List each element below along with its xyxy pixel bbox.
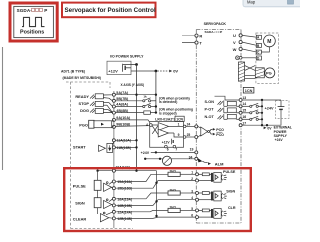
- wire R2 to pin1: [180, 173, 195, 175]
- svg-text:24: 24: [187, 122, 191, 126]
- pin 12B(14B): [112, 217, 115, 220]
- svg-text:SIGN: SIGN: [75, 201, 85, 206]
- svg-text:U: U: [233, 33, 236, 38]
- wire 0V vertical rail: [155, 71, 157, 113]
- svg-text:W: W: [233, 47, 237, 52]
- switch S5 (P-OT): [242, 110, 262, 114]
- svg-text:9A(10A): 9A(10A): [116, 116, 131, 120]
- line driver U10 (PCO): [198, 126, 213, 137]
- pin 16A(19A): [112, 197, 115, 200]
- pin 7: [173, 145, 176, 148]
- wire row 9B to LRX: [115, 125, 149, 128]
- wire start 11A: [115, 139, 137, 141]
- highlight box (red): [64, 168, 251, 231]
- svg-text:V: V: [233, 40, 236, 45]
- svg-text:14: 14: [242, 102, 246, 106]
- encoder cable hatched block: [238, 62, 244, 82]
- switch S2 (proximity): [143, 104, 156, 108]
- wire +5V row: [98, 170, 157, 172]
- svg-text:M: M: [267, 39, 271, 45]
- battery B1: [123, 64, 131, 72]
- wire T input: [182, 42, 195, 44]
- pin 11B(13B): [112, 146, 115, 149]
- svg-text:Servopack for Position Control: Servopack for Position Control: [65, 7, 156, 14]
- svg-text:(MADE BY MITSUBISHI): (MADE BY MITSUBISHI): [63, 76, 101, 80]
- node P-OT/+24V rail: [261, 112, 263, 114]
- svg-text:1k: 1k: [143, 95, 147, 99]
- pin 4B(8B): [112, 111, 115, 114]
- node CLR-/mid rail: [155, 215, 157, 217]
- svg-text:P-OT: P-OT: [205, 107, 215, 111]
- wire U to A: [242, 35, 256, 37]
- svg-text:1: 1: [191, 171, 193, 175]
- node ALM return b: [159, 158, 161, 160]
- svg-text:4: 4: [146, 123, 148, 127]
- mid rail: [156, 171, 158, 216]
- wire row 4B: [115, 112, 143, 114]
- AD71 connector column line: [113, 91, 115, 228]
- 1CN connector label box: [243, 87, 254, 93]
- line driver U11 (PULSE): [104, 182, 113, 192]
- svg-text:17: 17: [242, 121, 246, 125]
- 0V arrow label: [264, 126, 267, 129]
- svg-text:+12V: +12V: [108, 68, 118, 73]
- svg-text:19: 19: [190, 147, 194, 151]
- pin 11A(13A): [112, 139, 115, 142]
- opto-isolator U15 (SIGN input): [199, 191, 227, 201]
- wire LRX out to 1CN24: [186, 125, 195, 127]
- wire V to B: [242, 42, 256, 45]
- svg-text:7: 7: [175, 147, 177, 151]
- wire 0V return to battery: [242, 109, 281, 125]
- LRX 1CN connector label box: [175, 116, 184, 121]
- node 0V return rail: [261, 124, 263, 126]
- wire PG cable pair: [245, 66, 256, 79]
- svg-text:5: 5: [191, 207, 193, 211]
- svg-text:15: 15: [242, 109, 246, 113]
- wire motor to connector: [261, 47, 269, 52]
- opto-isolator U14 (PULSE input): [199, 172, 227, 182]
- svg-text:LRX-01/A2*2: LRX-01/A2*2: [155, 118, 175, 122]
- figure left crop line: [2, 47, 4, 170]
- wire CLR+: [116, 210, 168, 211]
- svg-text:Map: Map: [247, 0, 256, 5]
- svg-text:SERVOPACK: SERVOPACK: [204, 22, 227, 26]
- wire R input: [182, 35, 195, 37]
- wire CLR-: [116, 217, 195, 218]
- svg-text:13: 13: [242, 96, 246, 100]
- svg-text:Positions: Positions: [20, 30, 44, 36]
- svg-text:DOG: DOG: [80, 108, 89, 113]
- title box: Servopack for Position Control: [62, 3, 156, 18]
- node B (0V rail tap): [155, 70, 158, 73]
- ALM label: [208, 162, 211, 165]
- svg-text:R: R: [199, 33, 202, 38]
- line driver U5 (START): [99, 141, 114, 152]
- LRX unit box U6: [150, 122, 184, 148]
- wire LRX out to 1CN25: [186, 136, 195, 138]
- svg-text:AD71 (B TYPE): AD71 (B TYPE): [61, 70, 85, 74]
- wire ALM +24V feed: [151, 151, 195, 153]
- svg-text:STOP: STOP: [78, 101, 89, 106]
- motor connector pin C: [256, 50, 261, 54]
- node SIGN-/mid rail: [155, 200, 157, 202]
- LRX output pin 9: [183, 136, 186, 139]
- pin 12A(14A): [112, 210, 115, 213]
- svg-text:6: 6: [191, 214, 193, 218]
- svg-text:12B(14B): 12B(14B): [117, 217, 132, 221]
- svg-text:12A(14A): 12A(14A): [117, 210, 132, 214]
- wire SIGN-: [116, 200, 195, 206]
- svg-text:1CN: 1CN: [245, 89, 253, 93]
- svg-text:25: 25: [187, 133, 191, 137]
- opto-isolator U16 (CLR input): [199, 209, 227, 219]
- wire SIGN+: [116, 193, 168, 199]
- svg-text:PCO: PCO: [216, 128, 224, 132]
- wire PULS-: [116, 181, 195, 189]
- wire row 9A to LRX: [115, 120, 150, 123]
- opto-isolator U7 (S-ON): [218, 100, 240, 106]
- svg-text:+24V: +24V: [275, 138, 284, 142]
- svg-text:9: 9: [178, 133, 180, 137]
- svg-text:is detected): is detected): [159, 100, 177, 104]
- node row5A/0V rail: [155, 94, 157, 96]
- opto-isolator U8 (P-OT): [218, 107, 240, 112]
- node row5A/+12V rail: [135, 94, 137, 96]
- pin 5A(7A): [112, 93, 115, 96]
- 0V arrow marker: [169, 70, 172, 73]
- motor connector pin B: [256, 43, 261, 47]
- svg-text:+12V: +12V: [162, 140, 171, 144]
- pin 4A(8A): [112, 105, 115, 108]
- node S-ON/+24V rail: [261, 105, 263, 107]
- pin 9A(10A): [112, 118, 115, 121]
- pin 5B(7B): [112, 99, 115, 102]
- svg-text:CLEAR: CLEAR: [73, 216, 87, 221]
- wire dashed stub to 0V: [157, 70, 168, 72]
- svg-text:16: 16: [242, 115, 246, 119]
- pin 15A(16A): [112, 180, 115, 183]
- wire W to C: [242, 49, 256, 52]
- svg-text:N-OT: N-OT: [205, 115, 215, 119]
- pull-up rail left: [97, 171, 99, 214]
- battery B2 (+12V in LRX): [162, 139, 173, 145]
- svg-text:0V: 0V: [173, 69, 178, 74]
- node row4B/0V rail end: [155, 111, 157, 113]
- switch S6 (N-OT): [242, 116, 262, 120]
- terminal ground: [236, 56, 240, 60]
- svg-text:SIGN: SIGN: [226, 190, 235, 194]
- wire row 4A: [115, 106, 143, 108]
- svg-text:0V: 0V: [267, 126, 272, 130]
- motor connector pin D: [256, 56, 261, 60]
- svg-text:SGDA-□□□P: SGDA-□□□P: [205, 30, 223, 34]
- PGO buffer box: [89, 120, 94, 128]
- wire start 11B: [115, 146, 137, 148]
- svg-text:1CN: 1CN: [176, 117, 183, 121]
- svg-text:PG: PG: [266, 71, 272, 76]
- svg-text:4: 4: [191, 196, 193, 200]
- relay RY (alarm): [162, 156, 171, 165]
- callout box: SGDA Positions: [10, 3, 57, 41]
- motor M: [264, 35, 276, 47]
- svg-text:5B(7B): 5B(7B): [116, 97, 129, 101]
- svg-text:3: 3: [191, 189, 193, 193]
- wire R5 to pin5: [180, 209, 195, 211]
- pin 24: [195, 125, 198, 128]
- node PULS-/mid rail: [155, 182, 157, 184]
- wire row 5A: [115, 94, 156, 96]
- line driver U12 (SIGN): [104, 199, 113, 209]
- switch S4 (S-ON): [242, 103, 262, 107]
- pin 6: [165, 145, 167, 147]
- line receiver A (LRX): [152, 123, 183, 137]
- terminal T: [195, 41, 198, 44]
- wire PGO pair: [112, 120, 114, 122]
- svg-text:P: P: [44, 8, 47, 13]
- svg-text:CLR: CLR: [228, 206, 236, 210]
- svg-text:6: 6: [167, 147, 169, 151]
- PGO cable box: [94, 121, 112, 128]
- svg-text:READY: READY: [75, 94, 89, 99]
- node row4A/0V rail: [155, 105, 157, 107]
- alarm output transistor Q1: [198, 158, 203, 162]
- node 0V return batt: [266, 124, 268, 126]
- external battery B3 dashed box: [275, 101, 289, 119]
- svg-text:15B(16B): 15B(16B): [117, 187, 132, 191]
- svg-text:S-ON: S-ON: [205, 100, 215, 104]
- +12V supply box PS1: [107, 61, 131, 74]
- svg-text:4B(8B): 4B(8B): [116, 109, 129, 113]
- wire PULS+: [116, 174, 168, 181]
- node ALM feed: [155, 151, 157, 153]
- AD71 module dashed boundary: [66, 82, 133, 229]
- svg-text:START: START: [73, 145, 86, 150]
- svg-text:X AXIS (Y AXIS): X AXIS (Y AXIS): [121, 83, 145, 87]
- node +5V left: [96, 170, 98, 172]
- svg-text:5A(7A): 5A(7A): [116, 91, 129, 95]
- node N-OT/+24V rail bottom: [261, 118, 263, 120]
- line driver U13 (CLEAR): [100, 212, 112, 222]
- svg-text:16A(19A): 16A(19A): [117, 197, 132, 201]
- LRX output pin 1: [183, 125, 186, 128]
- svg-text:PGO: PGO: [79, 123, 88, 128]
- pin 10A(12A): [112, 169, 115, 172]
- svg-text:+24V: +24V: [141, 151, 150, 155]
- node ALM return a: [144, 158, 146, 160]
- opto-isolator U2 (READY): [90, 94, 112, 101]
- svg-text:I/O POWER SUPPLY: I/O POWER SUPPLY: [110, 55, 144, 59]
- servopack dash-dot boundary: [196, 30, 241, 224]
- terminal R: [195, 34, 198, 37]
- opto-isolator U9 (N-OT): [218, 114, 240, 120]
- pin 9B(10B): [112, 125, 115, 128]
- svg-text:T: T: [199, 40, 202, 45]
- resistor R1: [94, 180, 101, 190]
- opto-isolator U4 (DOG): [90, 108, 112, 113]
- callout pulse waveform icon: [22, 17, 45, 26]
- wire pin13 internal feed: [215, 96, 240, 100]
- wire row 5B left: [115, 100, 143, 102]
- PGO arrow marker: [101, 123, 104, 126]
- svg-text:PCO: PCO: [216, 133, 224, 137]
- svg-text:4A(8A): 4A(8A): [116, 103, 129, 107]
- wire R4 to pin3: [180, 192, 195, 194]
- wire +12V top feed: [123, 64, 137, 66]
- pin 25: [195, 136, 198, 139]
- switch S3 (stop): [144, 111, 156, 114]
- node A (+12V rail tap): [135, 63, 138, 66]
- node +5V at +12V rail: [135, 170, 137, 172]
- wire ALM return: [145, 158, 195, 160]
- svg-text:11B(13B): 11B(13B): [117, 146, 132, 150]
- svg-text:15A(16A): 15A(16A): [117, 180, 132, 184]
- wire ground to D: [242, 57, 256, 59]
- svg-text:ALM: ALM: [215, 162, 224, 167]
- encoder PG: [265, 68, 275, 78]
- resistor R3: [94, 198, 101, 208]
- wire 0V feed: [131, 70, 156, 72]
- PCO output labels: [213, 128, 216, 131]
- wire +12V vertical rail: [136, 65, 138, 171]
- pin 15B(16B): [112, 187, 115, 190]
- browser tooltip overlay (top right, partially cut): [243, 0, 303, 7]
- node +24V rail top: [261, 99, 263, 101]
- wire pin13 +24V feed: [242, 99, 281, 101]
- svg-text:SGDA-: SGDA-: [17, 8, 33, 13]
- svg-text:16B(19B): 16B(19B): [117, 204, 132, 208]
- svg-text:PULSE: PULSE: [223, 170, 236, 174]
- svg-text:34: 34: [189, 155, 193, 159]
- opto-isolator U3 (STOP): [90, 101, 112, 112]
- switch S1 (limit): [143, 95, 156, 102]
- svg-text:+24V: +24V: [265, 107, 274, 111]
- svg-text:PULSE: PULSE: [73, 183, 86, 188]
- svg-text:is stopped): is stopped): [159, 111, 177, 115]
- +24V rail: [261, 100, 263, 125]
- battery B3: [278, 100, 285, 109]
- svg-text:2: 2: [191, 177, 193, 181]
- PG connector hatched box: [255, 68, 264, 78]
- motor enclosure dashed box: [256, 33, 279, 83]
- pin 16B(19B): [112, 204, 115, 207]
- svg-text:1: 1: [178, 122, 180, 126]
- motor connector pin A: [256, 35, 261, 39]
